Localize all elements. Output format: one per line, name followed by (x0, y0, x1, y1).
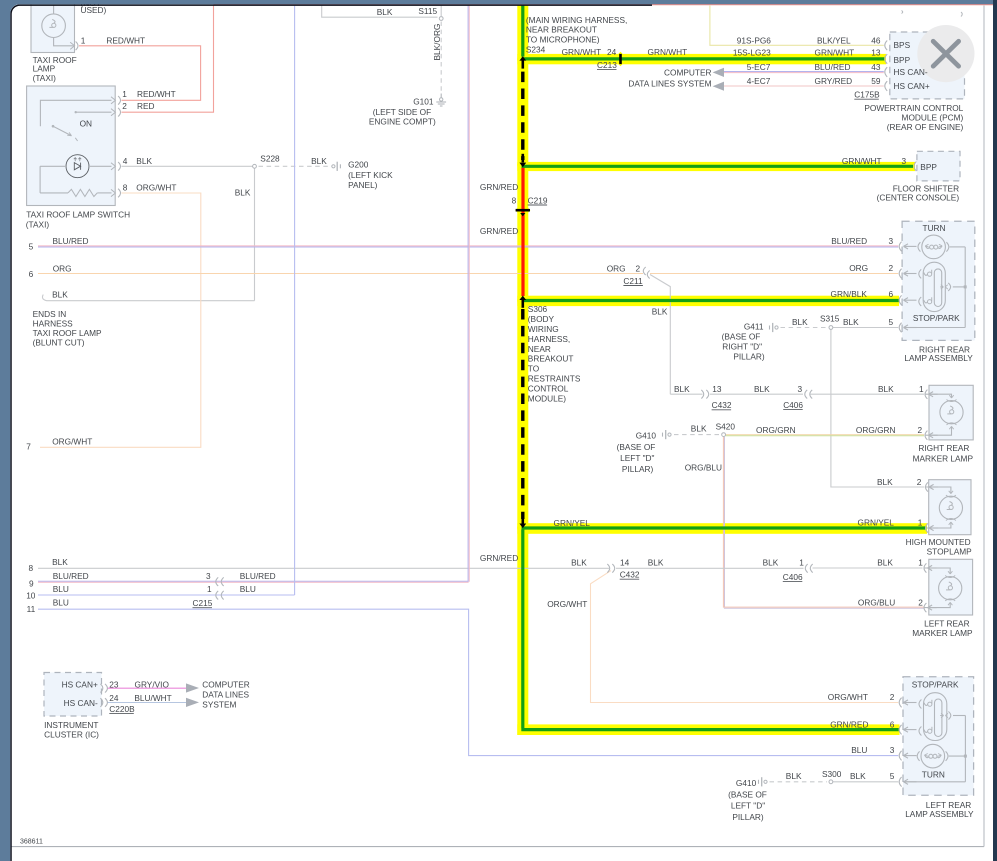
svg-text:5: 5 (889, 317, 894, 327)
switch internal pin1 branch (40, 100, 111, 126)
svg-text:CLUSTER (IC): CLUSTER (IC) (44, 730, 99, 740)
wire BLK blunt cut row (47, 300, 255, 302)
connector C215 arcs row10 (216, 591, 218, 600)
svg-text:15S-LG23: 15S-LG23 (733, 48, 771, 58)
switch blade (52, 125, 55, 128)
svg-text:INSTRUMENT: INSTRUMENT (44, 720, 98, 730)
splice S315 (829, 326, 833, 330)
modal black border (11, 5, 652, 861)
svg-text:(TAXI): (TAXI) (33, 73, 57, 83)
core GRN/WHT to floor shifter BPP pin3 (522, 165, 914, 168)
svg-text:BLK: BLK (52, 557, 68, 567)
cropped connector box above PCM (906, 3, 975, 5)
splice S115 (439, 17, 443, 21)
wire BLK C432 to C406 pin3 (710, 393, 803, 395)
svg-text:TO: TO (528, 364, 540, 374)
svg-text:6: 6 (889, 289, 894, 299)
highlight band wire GRN/RED to left rear lamp (517, 724, 899, 735)
core GRN/BLK to right rear lamp pin6 (522, 299, 899, 302)
svg-text:GRN/YEL: GRN/YEL (554, 518, 591, 528)
svg-text:ENDS IN: ENDS IN (33, 309, 67, 319)
left rear assembly internal ground path (953, 715, 965, 717)
marker splice S234 arrow up (519, 56, 526, 60)
svg-text:TAXI ROOF LAMP: TAXI ROOF LAMP (33, 328, 102, 338)
marker splice S306 arrow up (519, 296, 526, 300)
svg-text:1: 1 (122, 89, 127, 99)
wire BLK/YEL to PCM pin46 BPS (710, 6, 884, 46)
wire BLK splice S300 to left rear lamp pin5 (831, 781, 898, 783)
svg-text:STOP/PARK: STOP/PARK (913, 313, 960, 323)
svg-text:MARKER LAMP: MARKER LAMP (912, 628, 973, 638)
wire BLU/RED vertical x469 to top (467, 6, 469, 582)
high mounted stoplamp bulb (939, 496, 962, 519)
svg-text:ORG/GRN: ORG/GRN (856, 425, 896, 435)
svg-text:RED: RED (137, 101, 155, 111)
svg-text:(BASE OF: (BASE OF (617, 442, 656, 452)
svg-text:5: 5 (890, 771, 895, 781)
core dashed BLK S234 to floor shifter junction (521, 72, 524, 160)
svg-text:LEFT "D": LEFT "D" (731, 801, 765, 811)
svg-text:BLK: BLK (136, 156, 152, 166)
svg-text:MODULE (PCM): MODULE (PCM) (902, 112, 964, 122)
svg-text:MARKER LAMP: MARKER LAMP (913, 454, 974, 464)
ground G410 upper (662, 433, 664, 437)
wire BLK row to C432 pin13 (670, 393, 702, 395)
svg-text:2: 2 (122, 101, 127, 111)
svg-text:BLK: BLK (754, 384, 770, 394)
ground G411 (769, 326, 771, 330)
svg-text:STOPLAMP: STOPLAMP (927, 547, 972, 557)
wire ORG/BLU to left rear marker lamp pin2 (724, 606, 924, 608)
svg-text:LAMP: LAMP (33, 64, 56, 74)
connector C219 tick (516, 209, 530, 212)
wire BLK C432 to C406 pin1 (616, 567, 804, 569)
diagram page right border (983, 6, 985, 847)
svg-text:POWERTRAIN CONTROL: POWERTRAIN CONTROL (864, 103, 963, 113)
svg-text:C215: C215 (193, 598, 213, 608)
svg-text:1: 1 (919, 384, 924, 394)
svg-text:LEFT "D": LEFT "D" (620, 453, 654, 463)
core GRN/WHT to PCM BPP pin13 (522, 57, 885, 60)
core GRN/RED to left rear lamp pin6 (521, 728, 899, 731)
svg-text:7: 7 (26, 441, 31, 451)
svg-text:RED/WHT: RED/WHT (137, 89, 176, 99)
right rear marker bulb (940, 401, 963, 424)
svg-text:PILLAR): PILLAR) (733, 352, 765, 362)
svg-text:23: 23 (109, 679, 119, 689)
svg-text:(MAIN WIRING HARNESS,: (MAIN WIRING HARNESS, (526, 15, 627, 25)
wire BLK C406 to left rear marker lamp pin1 (813, 567, 923, 569)
svg-text:(LEFT KICK: (LEFT KICK (348, 170, 393, 180)
wire GRY/VIO IC pin23 to computer data lines (107, 687, 188, 689)
svg-text:24: 24 (607, 47, 617, 57)
svg-text:5: 5 (29, 242, 34, 252)
close button X (933, 41, 958, 66)
right rear turn bulb (922, 235, 946, 259)
svg-text:(REAR OF ENGINE): (REAR OF ENGINE) (887, 122, 964, 132)
svg-text:GRN/BLK: GRN/BLK (831, 289, 868, 299)
svg-text:COMPUTER: COMPUTER (202, 680, 249, 690)
svg-text:RIGHT REAR: RIGHT REAR (918, 443, 969, 453)
component PCM connector box (890, 32, 965, 99)
high mounted stoplamp internal wires (926, 487, 951, 494)
svg-text:ORG/BLU: ORG/BLU (685, 462, 722, 472)
marker GRN/YEL junction arrow down (521, 516, 524, 524)
svg-text:BLU: BLU (240, 584, 256, 594)
svg-text:NEAR BREAKOUT: NEAR BREAKOUT (526, 25, 597, 35)
component HIGH MOUNTED STOPLAMP box (929, 480, 971, 535)
svg-text:HS CAN+: HS CAN+ (62, 680, 98, 690)
svg-text:BREAKOUT: BREAKOUT (528, 354, 574, 364)
connector C213 tick (619, 54, 622, 64)
svg-text:BLU/WHT: BLU/WHT (134, 693, 171, 703)
highlight band wire GRN/WHT to PCM (517, 54, 886, 64)
highlight blob GRN/YEL junction (517, 522, 528, 533)
svg-text:BLU: BLU (851, 745, 867, 755)
svg-text:ORG/WHT: ORG/WHT (828, 692, 868, 702)
svg-text:13: 13 (712, 384, 722, 394)
svg-text:1: 1 (207, 584, 212, 594)
svg-text:(LEFT SIDE OF: (LEFT SIDE OF (373, 107, 431, 117)
svg-text:DATA LINES SYSTEM: DATA LINES SYSTEM (628, 78, 711, 88)
svg-text:TAXI ROOF LAMP SWITCH: TAXI ROOF LAMP SWITCH (26, 210, 130, 220)
wire BLK C406 to right rear marker lamp pin1 (811, 393, 925, 395)
computer data lines arrow 1 (top) (713, 68, 724, 77)
svg-text:ORG: ORG (53, 263, 72, 273)
svg-text:ORG: ORG (849, 263, 868, 273)
splice S300 (829, 780, 833, 784)
wire BLK splice S228 down to blunt cut row (254, 166, 256, 300)
svg-text:C219: C219 (528, 195, 548, 205)
svg-text:C432: C432 (620, 570, 640, 580)
svg-text:HS CAN+: HS CAN+ (894, 81, 930, 91)
svg-text:GRN/YEL: GRN/YEL (858, 517, 895, 527)
svg-text:BLU: BLU (53, 584, 69, 594)
svg-text:(BASE OF: (BASE OF (728, 789, 767, 799)
PCM pin arcs BPS BPP HS CAN- HS CAN+ (885, 41, 887, 51)
svg-text:GRN/RED: GRN/RED (480, 553, 518, 563)
svg-text:BLK: BLK (877, 477, 893, 487)
svg-text:BLU/RED: BLU/RED (53, 571, 89, 581)
svg-text:9: 9 (29, 578, 34, 588)
switch LED lamp (66, 155, 89, 178)
svg-text:S315: S315 (820, 314, 840, 324)
svg-text:3: 3 (902, 156, 907, 166)
svg-text:5-EC7: 5-EC7 (747, 62, 771, 72)
switch pin2 internal contact (76, 111, 112, 113)
svg-text:BLK: BLK (571, 557, 587, 567)
wire ORG row 6 to connector C211 (38, 273, 643, 275)
svg-text:BLK: BLK (235, 187, 251, 197)
svg-text:C220B: C220B (109, 704, 135, 714)
svg-text:BLK: BLK (648, 557, 664, 567)
core dashed BLK S306 harness segment (521, 309, 524, 519)
svg-text:6: 6 (890, 719, 895, 729)
wire BLU/WHT IC pin24 to computer data lines (107, 702, 188, 704)
splice S420 (722, 433, 726, 437)
svg-text:ENGINE COMPT): ENGINE COMPT) (369, 117, 436, 127)
svg-text:3: 3 (206, 571, 211, 581)
right rear marker pin arcs+arrows (925, 390, 927, 399)
svg-text:59: 59 (871, 76, 881, 86)
svg-text:ORG: ORG (607, 263, 626, 273)
wire BLU vertical x295 to top (294, 6, 296, 595)
svg-text:14: 14 (620, 557, 630, 567)
svg-text:2: 2 (889, 263, 894, 273)
wire BLK/ORG S115 to ground G101 (dashed) (440, 22, 442, 92)
highlight diamond connector C213 (614, 52, 628, 66)
svg-text:BLK: BLK (311, 156, 327, 166)
right rear stop/park dual filament lamp (923, 262, 945, 311)
taxi roof lamp pin 1 arc (70, 42, 74, 49)
splice S228 (253, 164, 257, 168)
highlight band wire GRN/YEL to high mounted stoplamp (517, 523, 927, 534)
svg-text:PILLAR): PILLAR) (732, 812, 764, 822)
computer data lines arrow 2 (bottom) (186, 698, 199, 707)
wire BLU/RED computer data lines to PCM pin43 HS CAN- (724, 71, 884, 73)
svg-text:HS CAN-: HS CAN- (64, 698, 98, 708)
svg-text:WIRING: WIRING (528, 324, 559, 334)
svg-text:(BASE OF: (BASE OF (722, 332, 761, 342)
connector C432 arcs row 394 (701, 390, 703, 399)
wire ORG C211 to right rear stop/park pin 2 (650, 273, 898, 275)
svg-text:BLK: BLK (843, 317, 859, 327)
left rear marker bulb (939, 577, 962, 600)
svg-text:1: 1 (918, 558, 923, 568)
highlight band wire GRN/WHT to floor shifter (517, 162, 915, 171)
svg-text:MODULE): MODULE) (528, 393, 566, 403)
wire BLK C211 diagonal to down run (650, 275, 670, 395)
highlight diamond connector C219 (515, 202, 530, 218)
computer data lines arrow 1 (bottom) (186, 683, 199, 692)
IC pin arcs (100, 684, 102, 693)
svg-text:C432: C432 (712, 400, 732, 410)
svg-text:C211: C211 (623, 276, 643, 286)
svg-text:3: 3 (889, 236, 894, 246)
svg-text:S300: S300 (822, 769, 842, 779)
svg-text:S420: S420 (716, 422, 736, 432)
svg-text:(TAXI): (TAXI) (26, 219, 50, 229)
svg-text:11: 11 (27, 604, 36, 614)
wire BLU/RED row 9 to up run at x469 (38, 580, 469, 582)
ground G410 lower (758, 780, 760, 784)
svg-text:GRN/WHT: GRN/WHT (562, 47, 602, 57)
wire BLK splice S315 down to high mounted stoplamp pin2 (831, 328, 925, 488)
svg-text:4: 4 (123, 156, 128, 166)
svg-text:1: 1 (81, 36, 86, 46)
left rear marker pin arcs+arrows (924, 563, 926, 572)
svg-text:TURN: TURN (923, 223, 946, 233)
marker floor shifter junction arrow down (521, 154, 524, 163)
svg-text:G411: G411 (744, 322, 764, 332)
svg-text:ORG/WHT: ORG/WHT (136, 183, 176, 193)
left rear turn bulb (921, 744, 945, 768)
svg-text:TO MICROPHONE): TO MICROPHONE) (526, 35, 600, 45)
svg-text:2: 2 (890, 692, 895, 702)
svg-text:PILLAR): PILLAR) (622, 464, 654, 474)
svg-text:TURN: TURN (922, 770, 945, 780)
svg-text:8: 8 (123, 183, 128, 193)
wire ORG/WHT C432 to left rear lamp pin2 (591, 571, 899, 703)
taxi roof lamp bulb (42, 14, 66, 38)
svg-text:C406: C406 (783, 572, 803, 582)
wire RED along top edge (214, 4, 997, 6)
switch LED internal wires (40, 165, 66, 167)
svg-text:GRN/WHT: GRN/WHT (815, 48, 855, 58)
component FLOOR SHIFTER BPP box (917, 151, 960, 181)
svg-text:368611: 368611 (20, 838, 43, 845)
svg-text:G410: G410 (736, 778, 757, 788)
svg-text:SYSTEM: SYSTEM (202, 699, 236, 709)
svg-text:S306: S306 (528, 304, 548, 314)
svg-text:4-EC7: 4-EC7 (747, 76, 771, 86)
svg-text:BLK: BLK (674, 384, 690, 394)
left rear pins arcs+arrows (899, 698, 901, 708)
right navy band (993, 0, 997, 861)
svg-text:GRN/RED: GRN/RED (480, 226, 518, 236)
svg-text:G101: G101 (413, 97, 434, 107)
wire BLU/RED row 5 to right rear turn pin 3 (38, 245, 898, 247)
svg-text:S228: S228 (260, 154, 280, 164)
svg-text:GRN/WHT: GRN/WHT (648, 47, 688, 57)
wire BLU row 10 to up run at x295 (38, 594, 295, 596)
svg-text:BPS: BPS (894, 40, 911, 50)
right rear pins arcs+arrows (899, 242, 901, 252)
highlight blob splice S306 (517, 295, 528, 306)
svg-text:LAMP ASSEMBLY: LAMP ASSEMBLY (904, 353, 973, 363)
svg-text:BLK: BLK (878, 384, 894, 394)
svg-text:C175B: C175B (854, 90, 880, 100)
svg-text:BLK/ORG: BLK/ORG (432, 24, 442, 61)
svg-text:BPP: BPP (894, 55, 911, 65)
svg-text:G200: G200 (348, 159, 369, 169)
svg-text:C213: C213 (597, 60, 617, 70)
diagram page bottom border (12, 846, 985, 848)
svg-text:BLU/RED: BLU/RED (240, 571, 276, 581)
core GRN/YEL to high mounted stoplamp pin1 (522, 526, 927, 529)
svg-text:46: 46 (871, 36, 881, 46)
svg-text:GRN/RED: GRN/RED (830, 719, 868, 729)
wire BLK G410 to splice S300 (dashed) (770, 781, 828, 783)
svg-text:ORG/WHT: ORG/WHT (52, 437, 92, 447)
svg-text:RIGHT "D": RIGHT "D" (722, 342, 762, 352)
left rear stop/park dual filament lamp (924, 693, 947, 741)
svg-text:BLK: BLK (850, 771, 866, 781)
ground G101 (440, 94, 442, 98)
highlight blob splice S234 (517, 54, 528, 65)
component TAXI ROOF LAMP SWITCH box (27, 86, 116, 206)
svg-text:2: 2 (636, 263, 641, 273)
wire ORG/WHT switch pin8 to row 7 (40, 193, 201, 447)
svg-text:BLU/RED: BLU/RED (53, 236, 89, 246)
svg-text:S234: S234 (526, 44, 546, 54)
connector C432 arcs row 567 (607, 564, 609, 573)
computer data lines arrow 2 (top) (713, 82, 724, 91)
connector C211 arcs (643, 267, 645, 275)
svg-text:3: 3 (798, 384, 803, 394)
left rear marker internal wires (925, 568, 951, 574)
svg-text:BLK: BLK (691, 423, 707, 433)
svg-text:13: 13 (871, 48, 881, 58)
svg-text:BLK: BLK (877, 558, 893, 568)
svg-text:PANEL): PANEL) (348, 180, 378, 190)
svg-text:2: 2 (917, 477, 922, 487)
svg-text:BLK: BLK (377, 7, 393, 17)
wire BLK stub above S115 (440, 6, 442, 16)
svg-text:BPP: BPP (920, 162, 937, 172)
svg-text:(BLUNT CUT): (BLUNT CUT) (33, 338, 85, 348)
highlight band wire GRN/BLK to right rear lamp (517, 296, 899, 306)
svg-text:CONTROL: CONTROL (528, 383, 569, 393)
highlight blob floor shifter junction (517, 159, 528, 170)
wire GRY/RED computer data lines to PCM pin59 HS CAN+ (724, 85, 884, 87)
svg-text:STOP/PARK: STOP/PARK (912, 680, 959, 690)
svg-text:(BODY: (BODY (528, 314, 555, 324)
component LEFT REAR MARKER LAMP box (929, 559, 973, 615)
svg-text:HARNESS,: HARNESS, (528, 334, 570, 344)
ground G200 (332, 165, 335, 168)
svg-text:HARNESS: HARNESS (33, 319, 74, 329)
switch resistor (40, 192, 68, 194)
high mounted stoplamp pin arcs+arrows (926, 482, 928, 491)
taxi roof lamp internal wires (53, 6, 55, 15)
svg-text:RED/WHT: RED/WHT (106, 36, 145, 46)
wire ORG/GRN splice S420 to right rear marker lamp pin2 (726, 434, 925, 436)
svg-text:BLU/RED: BLU/RED (815, 62, 851, 72)
svg-text:NEAR: NEAR (528, 344, 551, 354)
component RIGHT REAR LAMP ASSEMBLY box (902, 221, 975, 340)
svg-text:10: 10 (26, 591, 36, 601)
blunt cut hook (42, 295, 46, 301)
svg-text:BLK: BLK (52, 290, 68, 300)
svg-text:S115: S115 (418, 6, 437, 16)
svg-text:24: 24 (109, 693, 119, 703)
core GRN/WHT vertical above S234 (521, 5, 524, 56)
close button circle (917, 25, 974, 82)
wire RED/WHT taxi roof lamp pin1 to switch pin1 (79, 46, 201, 101)
svg-text:2: 2 (918, 597, 923, 607)
right rear assembly internal ground path (950, 246, 966, 248)
svg-text:GRY/RED: GRY/RED (815, 76, 853, 86)
svg-text:C406: C406 (783, 400, 803, 410)
connector C406 arcs row 394 (805, 390, 807, 399)
svg-text:G410: G410 (636, 430, 657, 440)
svg-text:BLK: BLK (792, 317, 808, 327)
svg-text:RESTRAINTS: RESTRAINTS (528, 374, 581, 384)
svg-text:(CENTER CONSOLE): (CENTER CONSOLE) (877, 193, 960, 203)
svg-text:BLU/RED: BLU/RED (831, 236, 867, 246)
wire BLK G411 to splice S315 (dashed) (781, 327, 828, 329)
svg-text:GRY/VIO: GRY/VIO (135, 679, 170, 689)
wire BLU row 11 to left rear turn pin 3 (38, 609, 898, 755)
component RIGHT REAR MARKER LAMP box (929, 385, 973, 440)
svg-text:8: 8 (29, 563, 34, 573)
core GRN/RED vertical C219 segment (521, 168, 524, 297)
svg-text:LAMP ASSEMBLY: LAMP ASSEMBLY (905, 809, 974, 819)
wire BLK splice S228 to ground G200 (dashed) (259, 165, 332, 167)
svg-text:HS CAN-: HS CAN- (894, 67, 928, 77)
svg-text:BLU: BLU (53, 597, 69, 607)
svg-text:3: 3 (890, 745, 895, 755)
highlight band vertical main trace (517, 5, 528, 735)
svg-text:GRN/RED: GRN/RED (480, 182, 518, 192)
component INSTRUMENT CLUSTER box (44, 673, 102, 717)
svg-text:USED): USED) (81, 5, 107, 15)
connector C406 arcs row 567 (805, 564, 807, 573)
connector C215 arcs row9 (216, 577, 218, 586)
component LEFT REAR LAMP ASSEMBLY box (903, 677, 974, 796)
svg-text:ORG/BLU: ORG/BLU (858, 597, 895, 607)
